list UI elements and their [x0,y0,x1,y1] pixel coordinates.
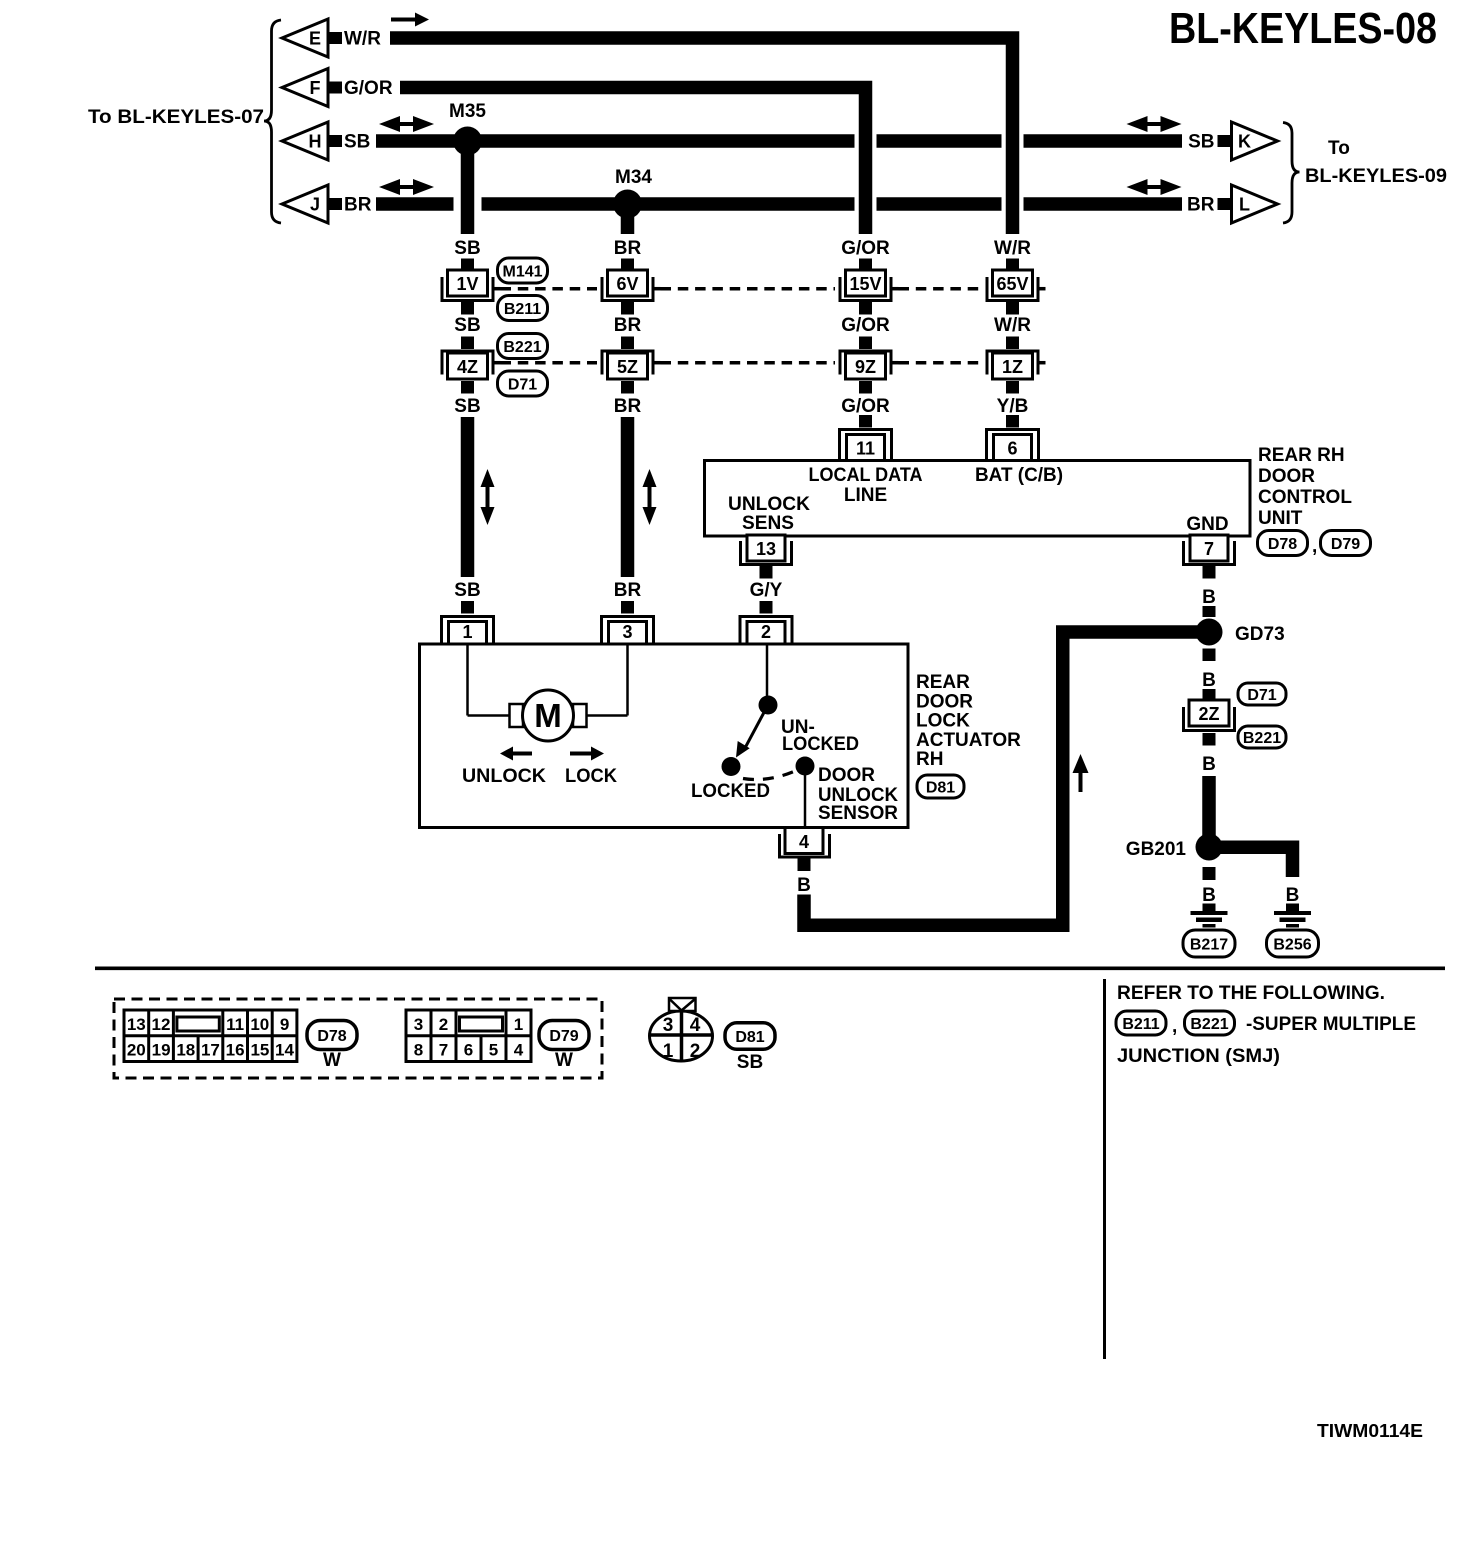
svg-text:6: 6 [1007,439,1017,459]
svg-text:G/Y: G/Y [750,580,783,601]
svg-text:Y/B: Y/B [997,396,1029,417]
svg-text:UNLOCK: UNLOCK [462,766,546,787]
svg-text:TIWM0114E: TIWM0114E [1317,1421,1423,1441]
svg-text:K: K [1238,132,1251,152]
svg-text:5Z: 5Z [617,357,638,377]
svg-text:4Z: 4Z [457,357,478,377]
svg-text:BR: BR [614,396,642,417]
svg-text:BR: BR [614,238,642,259]
svg-text:BL-KEYLES-08: BL-KEYLES-08 [1169,4,1437,53]
svg-text:18: 18 [176,1041,195,1060]
svg-text:B: B [1202,587,1216,608]
svg-text:UNLOCK: UNLOCK [728,494,810,515]
svg-text:SB: SB [454,238,480,259]
svg-text:D79: D79 [1331,536,1360,553]
svg-text:LOCKED: LOCKED [782,734,859,755]
svg-text:LOCAL DATA: LOCAL DATA [809,465,923,486]
svg-text:B: B [1202,670,1216,691]
svg-text:LOCK: LOCK [916,711,970,732]
svg-text:4: 4 [690,1015,701,1036]
svg-text:11: 11 [226,1015,244,1034]
svg-text:B221: B221 [1190,1016,1228,1033]
svg-text:To BL-KEYLES-07: To BL-KEYLES-07 [88,107,264,128]
svg-text:D71: D71 [508,376,537,393]
svg-text:12: 12 [152,1015,171,1034]
svg-text:GD73: GD73 [1235,624,1285,645]
svg-text:G/OR: G/OR [344,78,393,99]
svg-text:SENS: SENS [742,513,794,534]
svg-text:G/OR: G/OR [841,238,890,259]
svg-text:ACTUATOR: ACTUATOR [916,730,1021,751]
svg-text:B221: B221 [503,339,541,356]
svg-text:GND: GND [1186,514,1228,535]
svg-text:LINE: LINE [844,485,887,506]
svg-text:W/R: W/R [994,238,1031,259]
svg-text:SENSOR: SENSOR [818,803,898,824]
svg-text:B: B [1202,754,1216,775]
svg-text:SB: SB [344,132,370,153]
svg-text:7: 7 [1204,539,1214,559]
svg-text:17: 17 [201,1041,220,1060]
svg-text:15: 15 [250,1041,269,1060]
svg-text:BR: BR [614,315,642,336]
svg-text:DOOR: DOOR [1258,466,1315,487]
svg-text:DOOR: DOOR [916,691,973,712]
svg-text:7: 7 [439,1041,448,1060]
svg-text:D71: D71 [1247,687,1276,704]
svg-text:B256: B256 [1273,936,1311,953]
svg-text:DOOR: DOOR [818,765,875,786]
svg-text:65V: 65V [996,274,1028,294]
svg-text:6: 6 [464,1041,473,1060]
svg-text:B: B [797,875,811,896]
svg-text:B211: B211 [1122,1016,1159,1033]
svg-text:2: 2 [439,1015,448,1034]
svg-text:M34: M34 [615,167,652,188]
svg-text:G/OR: G/OR [841,396,890,417]
svg-text:1: 1 [663,1041,674,1062]
svg-text:15V: 15V [849,274,881,294]
svg-text:W/R: W/R [344,29,381,50]
svg-text:E: E [309,29,321,49]
svg-text:REAR: REAR [916,672,970,693]
svg-text:B: B [1286,885,1300,906]
svg-text:2: 2 [690,1041,701,1062]
svg-text:D81: D81 [735,1029,764,1046]
svg-text:RH: RH [916,749,943,770]
svg-text:8: 8 [414,1041,423,1060]
svg-text:-SUPER MULTIPLE: -SUPER MULTIPLE [1246,1014,1416,1035]
svg-text:13: 13 [127,1015,146,1034]
svg-text:B217: B217 [1190,936,1228,953]
svg-text:SB: SB [737,1052,763,1073]
svg-text:13: 13 [756,539,776,559]
svg-text:J: J [310,195,320,215]
svg-text:M141: M141 [502,263,542,280]
svg-text:GB201: GB201 [1126,839,1187,860]
svg-text:H: H [309,132,322,152]
svg-text:D78: D78 [1268,536,1297,553]
svg-text:To: To [1328,138,1350,159]
svg-text:11: 11 [856,439,875,459]
svg-text:14: 14 [275,1041,294,1060]
svg-text:B211: B211 [504,301,541,318]
svg-text:LOCKED: LOCKED [691,781,770,802]
svg-text:UNIT: UNIT [1258,508,1303,529]
svg-text:BR: BR [344,195,372,216]
svg-text:,: , [1172,1016,1177,1037]
svg-text:BAT (C/B): BAT (C/B) [975,465,1063,486]
svg-text:4: 4 [514,1041,524,1060]
svg-text:2: 2 [761,622,771,642]
svg-text:D81: D81 [926,779,955,796]
svg-text:9: 9 [280,1015,289,1034]
svg-text:JUNCTION (SMJ): JUNCTION (SMJ) [1117,1046,1280,1067]
svg-text:3: 3 [663,1015,674,1036]
svg-text:D78: D78 [317,1028,346,1045]
svg-text:BR: BR [1187,195,1215,216]
svg-text:3: 3 [414,1015,423,1034]
svg-text:G/OR: G/OR [841,315,890,336]
svg-text:,: , [1312,536,1317,557]
svg-text:3: 3 [622,622,632,642]
svg-text:6V: 6V [616,274,638,294]
svg-text:M35: M35 [449,101,486,122]
svg-text:1: 1 [514,1015,523,1034]
svg-text:2Z: 2Z [1198,704,1219,724]
svg-text:W/R: W/R [994,315,1031,336]
svg-text:D79: D79 [549,1028,578,1045]
svg-text:1Z: 1Z [1002,357,1023,377]
svg-text:1V: 1V [456,274,478,294]
svg-text:SB: SB [454,315,480,336]
svg-text:W: W [555,1050,573,1071]
svg-text:20: 20 [127,1041,146,1060]
svg-text:LOCK: LOCK [565,766,617,787]
svg-text:16: 16 [226,1041,245,1060]
svg-text:W: W [323,1050,341,1071]
svg-text:REFER TO THE FOLLOWING.: REFER TO THE FOLLOWING. [1117,983,1385,1004]
svg-text:BL-KEYLES-09: BL-KEYLES-09 [1305,166,1447,187]
svg-text:B: B [1202,885,1216,906]
svg-text:10: 10 [250,1015,269,1034]
svg-text:4: 4 [799,832,809,852]
svg-text:REAR RH: REAR RH [1258,445,1345,466]
svg-text:M: M [534,697,562,734]
svg-text:L: L [1239,195,1250,215]
svg-text:SB: SB [454,580,480,601]
svg-text:SB: SB [1188,132,1214,153]
svg-text:1: 1 [462,622,472,642]
svg-text:19: 19 [152,1041,171,1060]
svg-text:BR: BR [614,580,642,601]
svg-text:SB: SB [454,396,480,417]
svg-text:9Z: 9Z [855,357,876,377]
svg-text:B221: B221 [1243,730,1281,747]
svg-text:CONTROL: CONTROL [1258,487,1352,508]
svg-text:F: F [310,78,321,98]
svg-text:5: 5 [489,1041,498,1060]
